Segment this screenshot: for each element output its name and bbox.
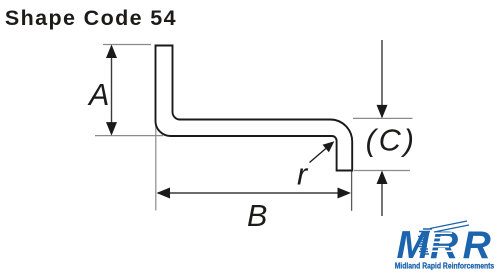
extension line A top xyxy=(103,44,151,46)
extension line B left xyxy=(155,122,157,211)
svg-text:A: A xyxy=(87,78,109,112)
logo diagonal streaks xyxy=(430,221,469,232)
arrowhead B left xyxy=(157,188,171,199)
arrowhead B right xyxy=(338,188,352,199)
logo speed dashes (blue, left of first R) xyxy=(418,229,432,254)
r leader arrow xyxy=(310,148,328,163)
dimension line C lower xyxy=(381,172,383,216)
arrowhead C lower (points up) xyxy=(377,171,388,185)
rebar shape code 54 bar outline xyxy=(156,46,353,171)
extension line C top xyxy=(353,117,413,119)
dimension line A xyxy=(111,46,113,134)
MRR logo xyxy=(395,221,496,271)
r arrowhead xyxy=(323,141,335,152)
svg-text:(C): (C) xyxy=(366,124,417,158)
arrowhead A bottom xyxy=(106,122,117,136)
extension line A bottom xyxy=(95,135,163,137)
dimension line B xyxy=(158,192,349,194)
extension line C bottom xyxy=(354,170,410,172)
svg-text:r: r xyxy=(297,157,309,191)
svg-text:Midland Rapid Reinforcements: Midland Rapid Reinforcements xyxy=(395,261,495,271)
arrowhead A top xyxy=(106,45,117,59)
svg-text:Shape Code 54: Shape Code 54 xyxy=(5,6,177,30)
arrowhead C upper (points down) xyxy=(377,105,388,119)
dimension line C upper xyxy=(381,40,383,117)
logo speed stripes (white cuts over first R) xyxy=(430,233,452,251)
svg-text:B: B xyxy=(247,199,267,233)
extension line B right xyxy=(351,172,353,211)
